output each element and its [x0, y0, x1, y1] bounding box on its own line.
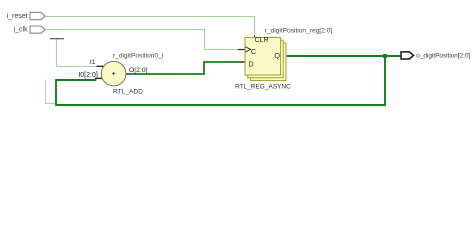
pin stub D	[238, 61, 245, 63]
feedback hook faint	[46, 80, 57, 104]
wire tie to I1	[57, 39, 97, 66]
svg-text:CLR: CLR	[255, 37, 269, 44]
pin stub C	[238, 49, 245, 51]
adder U1 circle	[101, 61, 126, 86]
wire adder O to D	[133, 62, 238, 74]
port i_reset symbol	[30, 12, 45, 19]
wire i_reset to CLR (net i_reset)	[45, 17, 254, 36]
svg-text:r_digitPosition0_i: r_digitPosition0_i	[113, 53, 164, 60]
pin stub O	[126, 73, 133, 75]
svg-text:I0[2:0]: I0[2:0]	[78, 72, 98, 79]
svg-text:o_digitPosition[2:0]: o_digitPosition[2:0]	[416, 52, 470, 59]
wire Q output to port	[288, 55, 401, 57]
svg-text:I1: I1	[90, 59, 96, 66]
pin stub Q	[280, 55, 288, 57]
svg-text:i_reset: i_reset	[7, 13, 28, 20]
svg-text:C: C	[251, 47, 256, 56]
svg-text:O[2:0]: O[2:0]	[129, 67, 148, 74]
svg-text:r_digitPosition_reg[2:0]: r_digitPosition_reg[2:0]	[265, 28, 333, 35]
register stack layer 2	[248, 40, 284, 77]
port i_clk symbol	[30, 26, 45, 33]
port o_digitPosition symbol	[401, 52, 414, 59]
svg-text:RTL_REG_ASYNC: RTL_REG_ASYNC	[235, 84, 291, 91]
pin stub CLR (register top)	[254, 36, 256, 39]
junction	[383, 54, 387, 58]
pin stub I1	[97, 65, 105, 67]
svg-text:Q: Q	[274, 51, 280, 60]
constant tie bar (1'b1)	[50, 38, 64, 39]
svg-text:D: D	[248, 59, 253, 68]
svg-text:i_clk: i_clk	[14, 27, 29, 34]
clock triangle	[245, 47, 251, 52]
register stack layer 3	[251, 43, 287, 81]
register U2 main body	[245, 38, 281, 76]
adder plus sign	[112, 72, 115, 75]
wire i_clk to C (net i_clk)	[45, 30, 238, 50]
wire feedback bus Q to I0 (net r_digitPosition)	[56, 56, 385, 105]
pin stub I0	[95, 77, 103, 79]
svg-text:RTL_ADD: RTL_ADD	[113, 88, 143, 95]
